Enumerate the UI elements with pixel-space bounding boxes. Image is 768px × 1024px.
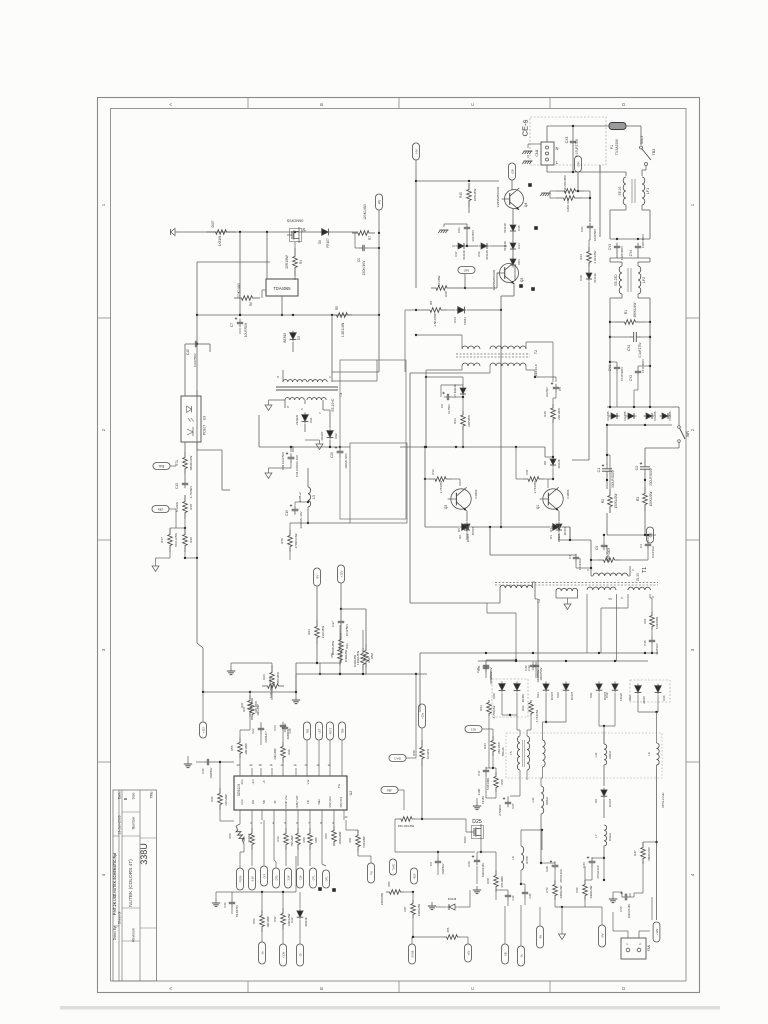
standby controller U1 TDA4065 (266, 228, 298, 296)
svg-text:R61: R61 (643, 618, 647, 624)
svg-text:R51: R51 (330, 652, 334, 657)
svg-text:FAN: FAN (647, 944, 651, 951)
svg-text:C2655#8/C945: C2655#8/C945 (496, 186, 500, 207)
svg-text:1000UF16V: 1000UF16V (627, 904, 631, 919)
resistor R5 (332, 306, 352, 337)
svg-text:FR107: FR107 (550, 691, 554, 700)
transformer T3 core (276, 387, 343, 411)
resistor R71 (175, 452, 193, 474)
svg-text:RPW-2.2uH: RPW-2.2uH (661, 793, 665, 808)
svg-text:UR6-8: UR6-8 (608, 751, 612, 759)
svg-text:+3.3V: +3.3V (282, 951, 285, 958)
capacitor CX3 (565, 137, 579, 157)
svg-text:47OR1/4W: 47OR1/4W (294, 533, 298, 548)
svg-text:120K1/4W: 120K1/4W (363, 203, 367, 220)
diode D2 (425, 447, 502, 542)
diode D21 (589, 682, 607, 701)
title block column lines (113, 790, 157, 981)
svg-text:5.6K1/8W: 5.6K1/8W (362, 836, 366, 848)
wire pills down (317, 583, 366, 644)
choke winding L9 (647, 743, 665, 807)
svg-text:Pon: Pon (240, 779, 244, 784)
svg-text:R35: R35 (500, 779, 504, 785)
transistor Q2 (444, 487, 478, 510)
resistor R17 (160, 527, 186, 552)
svg-text:+12v: +12v (420, 712, 424, 719)
svg-text:FR107: FR107 (471, 526, 475, 535)
resistor R37b (633, 842, 651, 897)
optocoupler U3 PC817 (181, 396, 207, 442)
svg-text:21K1/8W: 21K1/8W (321, 626, 325, 639)
svg-text:CY1: CY1 (608, 365, 612, 372)
net label OP1b (322, 820, 329, 888)
svg-text:470UF16V: 470UF16V (596, 865, 600, 879)
resistor R42 (273, 892, 291, 944)
resistor R39 (556, 175, 584, 193)
ground arrow sec filter (265, 461, 291, 479)
svg-text:Date:: Date: (118, 791, 122, 799)
svg-text:R66: R66 (314, 837, 318, 842)
svg-text:R68: R68 (412, 750, 416, 756)
svg-text:R27: R27 (242, 706, 246, 712)
net label -3.3V (249, 868, 256, 890)
svg-text:IN5819: IN5819 (283, 333, 287, 343)
resistor R44 (579, 231, 597, 267)
svg-text:FR107: FR107 (326, 238, 330, 248)
svg-text:T3.5A250V: T3.5A250V (615, 138, 619, 155)
svg-text:D26: D26 (492, 693, 496, 699)
svg-text:RL205: RL205 (606, 411, 610, 420)
svg-text:R6: R6 (249, 302, 253, 306)
net label -5V out (537, 907, 555, 948)
bridge rail bottom (606, 424, 672, 426)
resistor R31b (331, 626, 349, 657)
svg-text:FR107: FR107 (320, 431, 324, 440)
wire b rail to pill (415, 690, 417, 758)
net label PSON (237, 852, 244, 890)
resistor R45 (459, 183, 499, 213)
wire rectifier outputs down (489, 693, 658, 768)
svg-text:RL205: RL205 (653, 411, 657, 420)
choke L5 winding A (509, 736, 520, 770)
svg-text:1000UF16V: 1000UF16V (481, 863, 485, 878)
svg-text:R30: R30 (575, 887, 579, 893)
resistor R55c (413, 927, 468, 944)
svg-text:C24: C24 (273, 725, 277, 731)
svg-text:10R1/8W: 10R1/8W (266, 916, 270, 928)
title block Drawn by row (113, 926, 117, 941)
svg-text:50A-9: 50A-9 (640, 136, 644, 145)
transformer T3 primary winding (277, 315, 332, 382)
svg-text:FR107: FR107 (570, 691, 574, 700)
svg-text:EEL16-C: EEL16-C (534, 363, 538, 376)
svg-text:22R5/8W: 22R5/8W (467, 415, 471, 427)
capacitor C20 (330, 446, 348, 469)
net label 7R8 (153, 463, 176, 470)
ground bar 3v3 (473, 775, 496, 810)
ground arrow T3 secondary (265, 400, 285, 411)
svg-text:431F: 431F (414, 873, 416, 879)
resistor R62b (521, 700, 539, 722)
svg-text:D: D (621, 987, 626, 990)
svg-text:5.9K1/8W: 5.9K1/8W (486, 778, 490, 790)
svg-text:OP1: OP1 (325, 876, 328, 881)
svg-text:B: B (319, 987, 324, 990)
svg-text:0.47UF275V: 0.47UF275V (575, 138, 579, 157)
svg-text:FR107: FR107 (608, 798, 612, 807)
fuse F1 (609, 123, 626, 156)
svg-text:D19: D19 (605, 692, 609, 698)
svg-text:C9: C9 (429, 862, 433, 866)
svg-text:R8: R8 (429, 301, 433, 305)
svg-text:D: D (621, 103, 626, 106)
diode D24 (536, 682, 554, 701)
inductor L3 (298, 468, 316, 523)
svg-text:N: N (556, 146, 559, 151)
title block Revision label (132, 928, 136, 942)
capacitor C25 (282, 724, 292, 734)
svg-text:HED470V: HED470V (235, 905, 239, 917)
diode D13 (447, 307, 467, 325)
svg-text:EE-23: EE-23 (618, 186, 622, 195)
svg-text:F2020: F2020 (619, 693, 623, 701)
wire sec filter bottom (232, 552, 350, 565)
svg-text:CX3: CX3 (565, 137, 569, 144)
diode D23 (556, 682, 574, 701)
svg-text:1A: 1A (293, 763, 296, 767)
secondary top rail B (478, 660, 648, 662)
svg-text:D14: D14 (517, 243, 521, 249)
diode D10 (290, 892, 308, 944)
svg-text:C20: C20 (330, 452, 334, 458)
svg-text:D18: D18 (579, 275, 583, 281)
wire diode row (452, 245, 507, 247)
svg-text:C34: C34 (528, 893, 532, 898)
svg-text:T2: T2 (534, 350, 538, 354)
capacitor C42b (527, 660, 543, 681)
svg-text:4.7K1/4W: 4.7K1/4W (535, 709, 539, 722)
svg-text:680R1/4W: 680R1/4W (189, 456, 193, 471)
standby module outline (340, 360, 406, 519)
resistor R54c (353, 648, 371, 674)
svg-text:C17: C17 (477, 770, 481, 776)
wire L into LF1 (600, 172, 626, 176)
svg-text:R4?W: R4?W (525, 856, 529, 864)
snubber capacitor C4 above T1 (568, 554, 582, 570)
svg-text:C36: C36 (223, 902, 227, 908)
net label 43R1FF (411, 868, 418, 884)
zener diode D61 (295, 413, 313, 433)
svg-text:C-V42: C-V42 (394, 757, 401, 760)
svg-text:R1: R1 (624, 310, 628, 314)
svg-text:V5: V5 (608, 597, 612, 601)
wire CY bottoms to LF2 (610, 239, 650, 266)
capacitor C5b (535, 377, 562, 398)
svg-text:R30: R30 (189, 537, 193, 543)
capacitor CY2 (629, 358, 650, 407)
svg-text:471P400V: 471P400V (620, 366, 624, 381)
capacitor C3b (630, 534, 655, 560)
svg-text:B: B (123, 797, 128, 800)
net label +5V out (585, 858, 605, 947)
IC U2 pin names (240, 779, 343, 809)
svg-text:R22: R22 (268, 677, 272, 682)
capacitor C39 standby sec (292, 446, 294, 452)
wire output node joins (540, 862, 585, 908)
wire half bridge upper rail (400, 446, 545, 448)
svg-text:LF2: LF2 (642, 277, 646, 283)
svg-text:L9: L9 (647, 752, 651, 756)
capacitor CY3 (608, 243, 624, 260)
svg-text:22R1/8W: 22R1/8W (557, 408, 561, 420)
choke L5 winding B (501, 736, 530, 770)
svg-text:20K1/8W: 20K1/8W (273, 748, 277, 760)
wire D25 connections (421, 818, 481, 852)
svg-text:0.8K1 RA7: 0.8K1 RA7 (566, 198, 570, 212)
svg-text:R3: R3 (636, 497, 640, 501)
net label GP3 (273, 820, 280, 888)
wire D13 to Q1 base (467, 310, 501, 527)
bridge rail top (607, 406, 672, 408)
svg-text:CE-s: CE-s (521, 119, 530, 136)
capacitor C28 (545, 860, 563, 882)
resistor R30b (183, 519, 193, 552)
wire standby aux box (332, 360, 377, 381)
svg-text:C7: C7 (230, 323, 234, 327)
svg-text:2200UF?: 2200UF? (264, 731, 268, 743)
main transformer T1 secondary (587, 587, 654, 601)
inductor L8 (511, 830, 529, 884)
svg-text:R11: R11 (525, 469, 529, 474)
svg-text:F1: F1 (610, 145, 614, 149)
svg-text:330UF/200V: 330UF/200V (649, 467, 653, 486)
svg-text:D9: D9 (594, 799, 598, 803)
svg-text:RL205: RL205 (623, 411, 627, 420)
net label +5V mid (465, 944, 472, 962)
resistor R68 (412, 728, 430, 819)
capacitor C8 (440, 385, 463, 414)
wire TDA ties (234, 232, 283, 316)
standby rail wire (181, 231, 358, 233)
title block Sheet of row (118, 912, 122, 925)
wire upper ic rail (296, 625, 427, 692)
line filter LF2 (614, 266, 646, 294)
resistor R23b (307, 620, 325, 644)
net label 5VSB (409, 936, 416, 964)
wire T2 secondary leads (410, 366, 536, 603)
svg-text:CN1: CN1 (535, 149, 539, 156)
svg-text:R53: R53 (324, 833, 328, 838)
svg-text:1000P50V: 1000P50V (536, 669, 540, 682)
capacitor CX2 (610, 332, 650, 357)
drive transformer T2 core (456, 350, 538, 376)
svg-text:5B: 5B (503, 952, 507, 955)
svg-text:R23: R23 (307, 629, 311, 635)
resistor R48 (416, 273, 500, 297)
heatsink blob near Q4 (528, 183, 532, 187)
CE-s approval label (521, 119, 530, 136)
svg-text:R46: R46 (210, 796, 214, 802)
capacitor C10 (582, 856, 605, 880)
svg-text:0.047/50V: 0.047/50V (193, 352, 197, 367)
capacitor CY1 (608, 362, 624, 407)
wire regs to bus (296, 644, 366, 694)
net label 5B (502, 906, 509, 964)
svg-text:FR3I4: FR3I4 (463, 317, 467, 325)
protective earth hatch at inlet (522, 144, 541, 164)
drive transformer T2 primary top (415, 334, 553, 382)
capacitor C30 (196, 759, 234, 779)
wire LF1 to ladder rails (610, 205, 650, 239)
svg-text:EE-23D: EE-23D (614, 274, 618, 286)
net label 3.3Vb (285, 868, 292, 888)
svg-text:1UF/50V: 1UF/50V (471, 230, 475, 242)
svg-text:R70: R70 (280, 538, 284, 544)
bridge diode DB3 (644, 411, 658, 420)
svg-text:TL431: TL431 (393, 863, 395, 870)
svg-text:R4: R4 (299, 260, 303, 264)
svg-text:R40: R40 (543, 411, 547, 417)
connector FAN1 (621, 938, 651, 959)
resistor R55 (230, 730, 250, 768)
title block drawing number 338U (139, 843, 149, 865)
svg-text:R36 10K1/8W: R36 10K1/8W (398, 824, 415, 828)
svg-text:FB2 OP1: FB2 OP1 (339, 796, 343, 807)
svg-text:15K1/8W: 15K1/8W (276, 672, 280, 684)
title block file row (113, 852, 117, 915)
wire T1 primary feeds (558, 527, 591, 553)
svg-text:C1: C1 (597, 468, 601, 473)
svg-text:R30: R30 (287, 749, 291, 755)
svg-text:P:NT-2K.USE.NUTEK.SCHEMATIC.Rp: P:NT-2K.USE.NUTEK.SCHEMATIC.Rpt (113, 852, 117, 915)
title block Date row (118, 791, 122, 835)
drive transformer T2 winding (500, 582, 541, 603)
svg-text:C18 1000UF-10V: C18 1000UF-10V (295, 455, 299, 477)
svg-text:D21: D21 (589, 692, 593, 698)
svg-text:300K1/8W: 300K1/8W (353, 654, 357, 667)
svg-text:150K1/2W: 150K1/2W (649, 492, 653, 507)
wire sec filter top (259, 410, 350, 452)
standby B+ rail (197, 314, 379, 316)
resistor R70 (280, 522, 309, 552)
svg-text:7000: 7000 (463, 836, 467, 843)
svg-text:D24: D24 (536, 692, 540, 698)
capacitor C18 (281, 452, 299, 477)
capacitor C13b (175, 474, 193, 498)
svg-text:R51: R51 (348, 837, 352, 842)
svg-text:VM2: VM2 (317, 799, 321, 805)
svg-text:R54: R54 (387, 881, 391, 886)
svg-text:Size: Size (132, 792, 136, 799)
IC U2 bottom pin stubs (240, 810, 348, 825)
ground arrow T2 aux (556, 598, 578, 610)
svg-text:240R1/8W: 240R1/8W (380, 892, 384, 905)
resistor R64 (479, 700, 496, 718)
bridge diode DB2 (623, 411, 637, 420)
outer border frame (98, 98, 700, 993)
svg-text:C30: C30 (201, 768, 205, 774)
resistor R56c (252, 892, 270, 942)
svg-text:OPI: OPI (576, 161, 580, 166)
svg-text:TB0: TB0 (340, 728, 344, 733)
diode D19 (605, 682, 623, 701)
svg-text:REF2: REF2 (329, 727, 332, 734)
svg-text:R37: R37 (403, 906, 407, 911)
diode D18 (572, 267, 597, 460)
svg-text:V12: V12 (306, 779, 310, 784)
svg-text:C25: C25 (288, 728, 292, 733)
net label -12V (297, 868, 304, 888)
svg-text:SG6105: SG6105 (237, 784, 241, 797)
schottky pair D26 dashed box (492, 679, 528, 717)
svg-text:EI-33: EI-33 (636, 573, 640, 581)
svg-text:PSON: PSON (239, 875, 242, 882)
title block outline (113, 790, 157, 981)
svg-text:100uH: 100uH (608, 833, 612, 841)
svg-text:TDA4065: TDA4065 (273, 286, 291, 291)
svg-text:L8: L8 (511, 856, 515, 860)
resistor R60 on standby rail (206, 220, 236, 246)
diode D17 (454, 243, 467, 260)
svg-text:D13: D13 (453, 317, 457, 323)
svg-text:C22: C22 (251, 728, 255, 734)
svg-text:VCC: VCC (240, 799, 244, 805)
net label +12v mid (419, 704, 426, 728)
svg-text:RL205: RL205 (668, 411, 672, 420)
svg-text:L30: L30 (594, 752, 598, 757)
wire bulk caps rails (606, 425, 656, 536)
svg-text:GB: GB (510, 169, 514, 173)
ground bar upper IC area (227, 663, 272, 675)
svg-text:D61: D61 (309, 417, 313, 423)
svg-text:22K1/8W: 22K1/8W (224, 794, 228, 806)
left vertical bus (196, 398, 203, 692)
svg-text:SSK2N90: SSK2N90 (287, 219, 304, 223)
svg-text:R17: R17 (160, 537, 164, 543)
ground arrow left cluster (152, 552, 197, 572)
inner border frame (111, 109, 687, 982)
wire drive to T2 (489, 526, 491, 555)
svg-text:B: B (319, 103, 324, 106)
svg-text:-5V: -5V (315, 575, 319, 580)
svg-text:300K1/8W: 300K1/8W (344, 649, 348, 662)
svg-text:C: C (470, 987, 475, 990)
svg-text:24K1/4W: 24K1/4W (497, 742, 501, 754)
svg-text:680K1/4W: 680K1/4W (633, 303, 637, 318)
svg-text:1.5E1/4W: 1.5E1/4W (341, 322, 345, 337)
net label C18033 (390, 859, 397, 875)
svg-text:ULF50V: ULF50V (545, 387, 549, 397)
svg-text:L3: L3 (312, 495, 316, 499)
wire T1 sec drops (587, 594, 652, 661)
ground bar under C29 (473, 886, 481, 894)
resistor R1 (610, 303, 650, 325)
ground arrow left of standby rail (171, 229, 182, 236)
svg-text:IN4148: IN4148 (304, 917, 308, 926)
resistor R59 diagonal (228, 820, 251, 852)
svg-text:ER8+2: ER8+2 (298, 492, 302, 502)
svg-text:D25: D25 (472, 819, 482, 825)
svg-text:3.9K1/8W: 3.9K1/8W (593, 250, 597, 263)
bridge diode DB1 (606, 411, 620, 420)
resistor R46 (210, 761, 234, 821)
wire ic ground bus (232, 850, 296, 893)
svg-text:C32: C32 (524, 665, 528, 671)
diode D62 (320, 410, 338, 447)
svg-text:C: C (470, 103, 475, 106)
svg-text:R34: R34 (483, 743, 487, 749)
wire fan leads (613, 905, 628, 938)
